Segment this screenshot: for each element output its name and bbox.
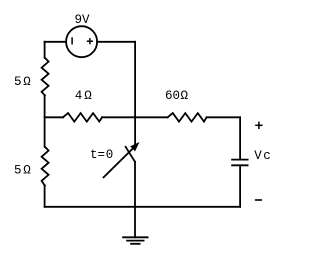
wire switch to ground (134, 162, 136, 238)
voltage source V1 circle (66, 26, 97, 57)
label 4ohm (75, 89, 92, 103)
wire left rail upper (44, 42, 46, 58)
label Vc (254, 149, 271, 163)
switch S1 blade (104, 146, 136, 178)
svg-text:t=: t= (90, 148, 105, 162)
svg-text:Ω: Ω (181, 89, 189, 103)
svg-text:V: V (254, 149, 262, 163)
label 60ohm (165, 89, 189, 103)
label 5ohm lower (14, 163, 31, 177)
svg-text:0: 0 (106, 148, 114, 162)
resistor R4 60ohm (168, 113, 207, 122)
label t=0 (90, 148, 113, 162)
voltage source V1 minus terminal bar (71, 37, 73, 44)
wire top-left horizontal (45, 41, 67, 43)
ground bar 2 (127, 240, 144, 242)
resistor R3 4ohm (63, 113, 102, 122)
capacitor minus sign (255, 199, 262, 201)
capacitor plus sign (255, 122, 262, 129)
wire right rail upper (239, 117, 241, 159)
wire left rail lower (44, 186, 46, 207)
label 5ohm upper (14, 75, 31, 89)
wire bottom horizontal (45, 206, 241, 208)
svg-text:Ω: Ω (23, 163, 31, 177)
wire right rail lower (239, 165, 241, 207)
voltage source V1 plus sign (87, 38, 93, 44)
resistor R1 5ohm upper (42, 58, 49, 96)
switch S1 arrowhead (131, 143, 138, 150)
wire middle row right segment (207, 116, 241, 118)
wire middle row center segment (102, 116, 168, 118)
svg-text:c: c (263, 149, 271, 163)
wire top-right horizontal (97, 41, 135, 43)
capacitor C1 bottom plate (232, 164, 248, 166)
ground bar 3 (131, 243, 140, 245)
svg-text:60: 60 (165, 89, 180, 103)
resistor R2 5ohm lower (42, 147, 49, 186)
svg-text:9V: 9V (75, 13, 91, 27)
wire left rail middle (44, 95, 46, 146)
svg-text:Ω: Ω (84, 89, 92, 103)
capacitor C1 top plate (232, 159, 248, 161)
svg-text:4: 4 (75, 89, 83, 103)
wire middle vertical rail (source to switch arm) (134, 42, 136, 145)
svg-text:5: 5 (14, 75, 22, 89)
svg-text:5: 5 (14, 163, 22, 177)
switch S1 fixed contact stub (126, 147, 135, 162)
ground bar 1 (123, 236, 148, 238)
wire middle row left segment (45, 116, 63, 118)
svg-text:Ω: Ω (23, 75, 31, 89)
